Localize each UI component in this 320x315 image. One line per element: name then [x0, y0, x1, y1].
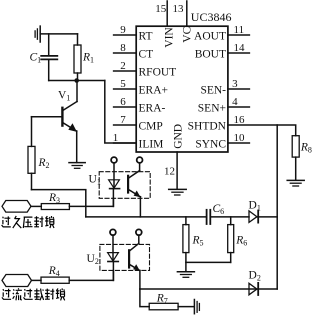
svg-text:CMP: CMP: [139, 121, 163, 133]
node junction dot: [74, 78, 79, 83]
svg-text:5: 5: [120, 78, 126, 90]
svg-text:AOUT: AOUT: [194, 31, 226, 43]
svg-text:R4: R4: [48, 265, 60, 278]
terminal T1 hexagon: [2, 201, 31, 213]
resistor R3: [41, 204, 69, 210]
pin 13 wire: [186, 1, 188, 26]
pin 15 wire: [166, 1, 168, 26]
svg-text:12: 12: [164, 165, 175, 177]
pin 3 stub: [228, 88, 250, 90]
IC UC3846 body: [136, 26, 228, 152]
svg-text:BOUT: BOUT: [195, 49, 226, 61]
svg-text:13: 13: [173, 3, 185, 15]
ground G2 under V1: [69, 163, 85, 169]
svg-text:11: 11: [234, 24, 245, 36]
svg-text:ILIM: ILIM: [139, 139, 164, 151]
resistor R5: [183, 217, 189, 272]
pin 7 stub: [114, 124, 137, 126]
svg-text:2: 2: [120, 60, 126, 72]
capacitor C1: [41, 56, 57, 60]
resistor R6: [228, 217, 234, 263]
svg-text:R2: R2: [38, 157, 50, 170]
pin 4 stub: [228, 106, 250, 108]
wire shutdown vertical branch: [276, 125, 278, 289]
svg-text:16: 16: [234, 114, 246, 126]
wire R2 bottom to long bus: [32, 190, 86, 217]
svg-text:7: 7: [120, 114, 126, 126]
svg-text:1: 1: [113, 132, 119, 144]
svg-text:3: 3: [232, 78, 238, 90]
svg-text:RFOUT: RFOUT: [139, 67, 177, 79]
svg-text:SYNC: SYNC: [195, 139, 226, 151]
wire C1 top lead: [48, 34, 50, 55]
svg-text:SEN-: SEN-: [200, 85, 226, 97]
svg-text:CT: CT: [139, 49, 154, 61]
pin 6 stub: [114, 106, 137, 108]
wire ILIM vertical: [105, 81, 136, 144]
capacitor C6: [207, 210, 211, 224]
ground G1 top-left rotated: [35, 26, 40, 42]
wire R5-R6 bottoms: [186, 261, 231, 263]
wire C1 bottom lead: [48, 60, 50, 80]
wire middle horizontal to ILIM: [49, 80, 105, 82]
diode D1: [249, 211, 277, 223]
svg-text:D1: D1: [249, 200, 261, 213]
svg-text:SHTDN: SHTDN: [188, 121, 227, 133]
wire bus right segment: [211, 216, 249, 218]
pin 2 stub: [114, 70, 137, 72]
svg-text:U2: U2: [87, 253, 99, 266]
pin 10 stub: [228, 142, 250, 144]
svg-text:ERA-: ERA-: [139, 103, 166, 115]
svg-text:15: 15: [155, 3, 167, 15]
ground G5 under R5: [177, 272, 194, 278]
svg-text:UC3846: UC3846: [191, 10, 232, 24]
svg-text:R8: R8: [300, 142, 312, 155]
svg-text:R3: R3: [48, 192, 60, 205]
svg-text:GND: GND: [173, 124, 185, 149]
wire T1 to R3: [31, 205, 41, 207]
ground G3 pin12: [169, 189, 187, 195]
wire T2 to R4: [32, 279, 42, 281]
wire D2 horizontal: [140, 288, 277, 290]
svg-text:D2: D2: [249, 270, 261, 283]
ground G6 rotated right of R7: [194, 300, 199, 314]
svg-text:6: 6: [120, 96, 126, 108]
svg-text:4: 4: [232, 96, 238, 108]
svg-text:SEN+: SEN+: [198, 103, 226, 115]
svg-text:VC: VC: [181, 26, 193, 42]
resistor R4: [41, 277, 69, 283]
pin 16 wire to R8: [228, 125, 296, 136]
svg-text:R7: R7: [156, 293, 168, 306]
terminal T2 hexagon: [2, 275, 32, 287]
wire R4 to U2 LED: [69, 270, 113, 280]
svg-text:R6: R6: [235, 235, 247, 248]
resistor R8: [292, 136, 299, 181]
pin 12 wire: [176, 152, 178, 189]
wire bus left segment: [86, 216, 206, 218]
svg-text:8: 8: [120, 42, 126, 54]
svg-text:C1: C1: [30, 52, 42, 65]
pin 5 stub: [114, 88, 137, 90]
resistor R7: [140, 289, 194, 310]
resistor R2: [28, 117, 35, 190]
svg-text:14: 14: [234, 42, 246, 54]
pin 11 stub: [228, 34, 250, 36]
svg-text:V1: V1: [58, 90, 70, 103]
svg-text:RT: RT: [139, 31, 153, 43]
pin 8 stub: [114, 52, 137, 54]
svg-text:9: 9: [120, 24, 126, 36]
ground G4 under R8: [287, 180, 304, 186]
diode D2: [249, 283, 258, 295]
svg-text:R5: R5: [192, 235, 204, 248]
text 过流过载封锁 hand-drawn: [2, 288, 65, 300]
transistor V1: [32, 81, 78, 163]
pin 1 stub: [114, 142, 137, 144]
svg-text:10: 10: [234, 132, 246, 144]
svg-text:C6: C6: [213, 203, 225, 216]
wire R3 to U1 LED: [69, 198, 113, 206]
pin 14 stub: [228, 52, 250, 54]
svg-text:VIN: VIN: [164, 27, 176, 48]
svg-text:ERA+: ERA+: [139, 85, 169, 97]
pin 9 stub: [114, 34, 137, 36]
svg-text:R1: R1: [82, 52, 94, 65]
text 过欠压封锁 hand-drawn: [2, 216, 54, 228]
optocoupler U1: [99, 157, 150, 217]
optocoupler U2: [100, 229, 150, 289]
resistor R1: [74, 34, 81, 81]
wire top-left horizontal: [40, 33, 77, 35]
